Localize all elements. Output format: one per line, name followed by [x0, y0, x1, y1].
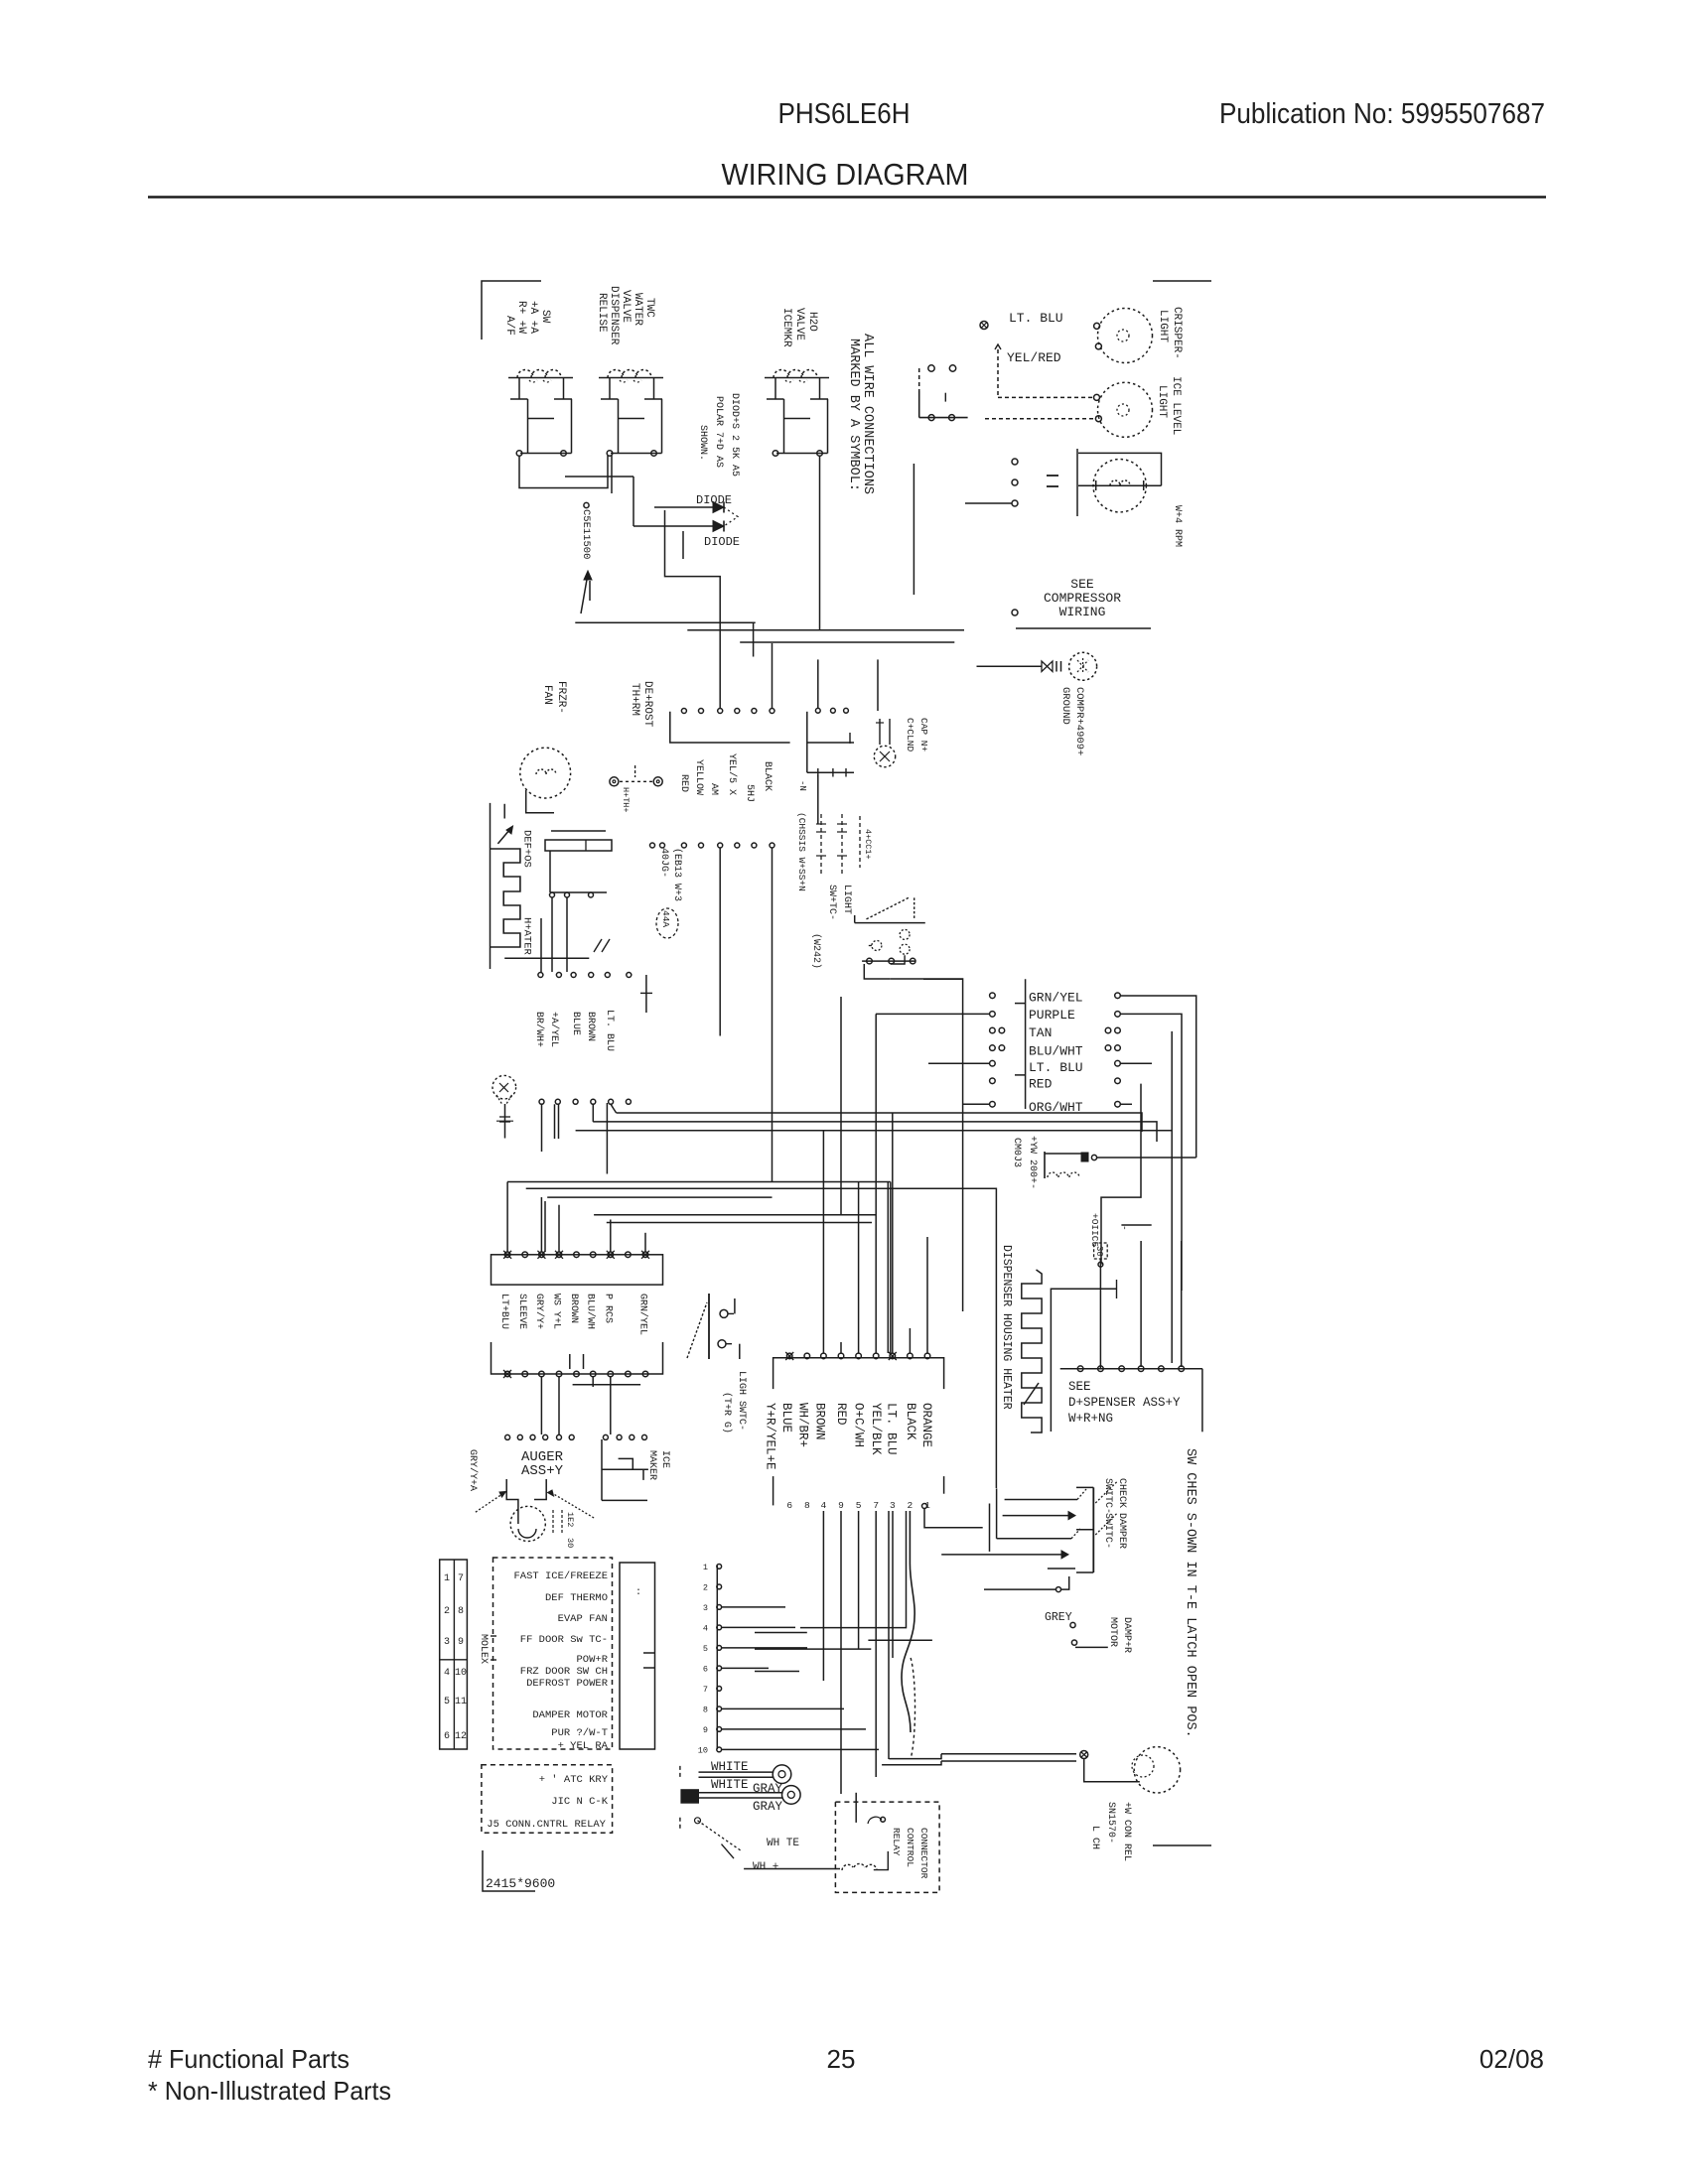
water valve V3 (water valve icemaker) [765, 377, 829, 379]
diode output dashed join [724, 507, 738, 526]
svg-text:FRZ DOOR SW CH: FRZ DOOR SW CH [520, 1666, 608, 1678]
connector pair C C [928, 365, 934, 371]
wire heater connector line [550, 891, 607, 893]
wire stub below diode [682, 531, 684, 559]
svg-text:LIGHT: LIGHT [1157, 310, 1169, 342]
svg-text:LIGHT: LIGHT [841, 885, 852, 914]
svg-text:(T+R G): (T+R G) [721, 1392, 733, 1433]
wire dashed to light pin2 [985, 418, 1094, 420]
legend symbol col1 [820, 814, 822, 874]
wire long vertical right [1171, 1031, 1173, 1363]
diode D2 lead [633, 525, 713, 527]
connector block lower pins [504, 1371, 510, 1377]
svg-text:CAP N+: CAP N+ [918, 718, 929, 752]
svg-text:(EB13 W+3: (EB13 W+3 [671, 848, 683, 901]
capacitor symbol [1047, 475, 1058, 477]
svg-text:COMPRESSOR: COMPRESSOR [1044, 591, 1121, 606]
ground ring terminal [1069, 652, 1097, 680]
wire channel v1 [822, 1511, 824, 1681]
svg-text:30: 30 [1094, 1246, 1104, 1257]
terminal white pair [699, 1771, 774, 1773]
water valve V2 (TWC water valve dispenser) [599, 377, 663, 379]
lamp crisper light [1098, 309, 1153, 363]
svg-text:W+R+NG: W+R+NG [1068, 1412, 1113, 1426]
svg-text:25: 25 [827, 2044, 856, 2074]
lamp ice level light [1098, 382, 1153, 437]
node CSE11500 terminal [584, 502, 589, 507]
wire top feed circle [922, 1504, 927, 1509]
svg-text:SLEEVE: SLEEVE [516, 1294, 527, 1329]
wire org/wht right stub [1120, 1103, 1132, 1105]
svg-text:3: 3 [444, 1637, 450, 1648]
diode D2 [713, 521, 724, 532]
wire stub [503, 804, 505, 819]
wire bus D3 [576, 1130, 1172, 1132]
svg-text:WH/BR+: WH/BR+ [796, 1403, 810, 1447]
wire purple row feed [876, 1013, 990, 1015]
legend symbol col2 [841, 814, 843, 874]
svg-text:LT. BLU: LT. BLU [885, 1403, 899, 1455]
svg-text:5HJ: 5HJ [744, 784, 755, 802]
heater defrost element [491, 849, 520, 947]
svg-text:ASS+Y: ASS+Y [521, 1463, 564, 1479]
svg-text:11: 11 [455, 1697, 467, 1707]
wire diag dotted [698, 1821, 743, 1851]
wire pair to lamp [889, 1754, 941, 1759]
svg-text:4+CC1+: 4+CC1+ [863, 829, 873, 860]
lamp small teardrop [492, 1075, 516, 1099]
connector row EB13 upper [681, 709, 686, 714]
svg-text:MAKER: MAKER [646, 1450, 657, 1480]
switch door light lever [687, 1302, 707, 1358]
svg-text:RELISE: RELISE [596, 293, 608, 333]
relay coil [842, 1863, 877, 1870]
svg-text:+YW 200+-: +YW 200+- [1027, 1136, 1038, 1189]
svg-text:DISPENSER: DISPENSER [608, 286, 620, 345]
svg-text:2: 2 [444, 1606, 450, 1617]
wire to relay [744, 1868, 840, 1870]
wire feed c5 [909, 1328, 911, 1353]
svg-text:DIOD+S 2 5K A5: DIOD+S 2 5K A5 [729, 393, 740, 477]
wire heater term drops [551, 897, 553, 972]
svg-text:DEF+OS: DEF+OS [521, 830, 533, 868]
svg-text:Y+R/YEL+E: Y+R/YEL+E [764, 1403, 777, 1470]
svg-text:5: 5 [444, 1697, 450, 1707]
callout bubble 44A [656, 908, 678, 938]
switch door light contacts [720, 1309, 728, 1317]
compressor box [1076, 449, 1078, 516]
wire switch drop [864, 964, 890, 979]
svg-text:5: 5 [703, 1644, 708, 1654]
svg-text:LIGHT: LIGHT [1156, 385, 1168, 418]
svg-text:Publication No: 5995507687: Publication No: 5995507687 [1219, 98, 1545, 130]
svg-text:-: - [1119, 1225, 1130, 1231]
wire crossing under valves [565, 476, 633, 478]
wire bus E2 [526, 1188, 997, 1488]
svg-text:A/F: A/F [503, 316, 515, 336]
wire purple right [1120, 1014, 1182, 1291]
thermostat defrost [551, 830, 606, 832]
symbol splice bowtie [1042, 661, 1053, 672]
motor freezer fan [520, 748, 571, 798]
ice maker switch [601, 1439, 603, 1500]
wire bus B drop [753, 622, 755, 656]
ice dashed marks [552, 1510, 554, 1534]
water valve V1 (switched lts wtr valve) [508, 377, 573, 379]
svg-text:DE+ROST: DE+ROST [641, 681, 653, 728]
svg-text:FRZR-: FRZR- [555, 681, 567, 714]
damper motor terminals [1070, 1622, 1075, 1627]
svg-text:1E2: 1E2 [565, 1512, 575, 1527]
wire channel v6 [800, 1511, 907, 1628]
svg-text:C+CLND: C+CLND [905, 718, 915, 752]
svg-text:BROWN: BROWN [568, 1294, 579, 1323]
lamp cap keyhole [874, 746, 895, 766]
switch light common row [862, 960, 915, 962]
svg-text:4: 4 [444, 1668, 450, 1679]
wire red right drop [1101, 1084, 1141, 1265]
wire bus B [687, 629, 964, 631]
connector columns wire colors [990, 993, 996, 999]
svg-text:D+SPENSER ASS+Y: D+SPENSER ASS+Y [1068, 1396, 1181, 1410]
svg-text:GRN/YEL: GRN/YEL [637, 1294, 649, 1335]
wire stub b [755, 1632, 807, 1634]
svg-text:WS Y+L: WS Y+L [551, 1294, 562, 1329]
control board solid box [620, 1563, 655, 1749]
relay dashed box [835, 1802, 939, 1892]
wire bus E4 [594, 1214, 876, 1216]
diagram corner mark top-left [482, 281, 541, 340]
wire lamp feed pair [941, 1753, 1076, 1755]
wire bus C [740, 641, 954, 643]
svg-text:1: 1 [703, 1563, 708, 1572]
wire bus A [575, 621, 755, 623]
connector body line [1025, 979, 1027, 1109]
svg-text:SWITC-: SWITC- [1102, 1478, 1113, 1514]
svg-text:EVAP FAN: EVAP FAN [558, 1613, 608, 1625]
svg-text:BROWN: BROWN [585, 1012, 596, 1041]
wire horizontal [504, 957, 589, 959]
svg-text:SW+TC-: SW+TC- [826, 885, 837, 920]
svg-text:H+ATER: H+ATER [521, 917, 533, 956]
svg-text:+A +A: +A +A [527, 301, 539, 334]
svg-text:2: 2 [703, 1582, 708, 1592]
svg-text:POW+R: POW+R [576, 1654, 608, 1666]
svg-text:4: 4 [703, 1623, 708, 1633]
wires into block pins [506, 1182, 508, 1253]
svg-text:VALVE: VALVE [620, 290, 632, 323]
svg-text:2415*9600: 2415*9600 [486, 1876, 555, 1891]
dashed tick2 [679, 1818, 681, 1832]
connector strip line [716, 1566, 718, 1749]
svg-text:02/08: 02/08 [1479, 2044, 1544, 2074]
wire drops to dispenser connector [1140, 1241, 1142, 1367]
svg-text:CONNECTOR: CONNECTOR [918, 1828, 929, 1879]
svg-text:GRY/Y+A: GRY/Y+A [467, 1449, 479, 1491]
svg-text:WH +: WH + [753, 1861, 778, 1873]
svg-text:DEF THERMO: DEF THERMO [545, 1592, 608, 1604]
svg-text:FF DOOR Sw TC-: FF DOOR Sw TC- [520, 1634, 608, 1646]
svg-text:P RCS: P RCS [602, 1294, 613, 1323]
svg-text:MOTOR: MOTOR [1107, 1617, 1118, 1647]
svg-text:FAN: FAN [541, 685, 553, 705]
svg-text:7: 7 [458, 1573, 464, 1584]
svg-text:WIRING: WIRING [1059, 605, 1106, 619]
svg-text:8: 8 [703, 1705, 708, 1714]
brace bundle [911, 1658, 914, 1759]
connector block pins [504, 1252, 510, 1258]
wires from strip [722, 1606, 785, 1608]
svg-text:BROWN: BROWN [812, 1403, 826, 1440]
svg-text:1: 1 [444, 1573, 450, 1584]
wire drop from row pin6 [772, 848, 774, 1182]
svg-text:TAN: TAN [1029, 1025, 1052, 1040]
wire feed check switch L1 [1005, 1499, 1077, 1501]
wire feed c1 [840, 997, 842, 1215]
switch leader dotted 2 [1095, 1513, 1117, 1535]
svg-text:SW CHES S-OWN IN T-E LATCH OPE: SW CHES S-OWN IN T-E LATCH OPEN POS. [1183, 1448, 1197, 1738]
connector block lower bracket [492, 1342, 663, 1374]
wire break marks [594, 939, 602, 952]
svg-text:RELAY: RELAY [891, 1828, 902, 1856]
svg-text:-N: -N [797, 780, 807, 791]
svg-text:ORANGE: ORANGE [919, 1403, 933, 1447]
wire switch left verticals [989, 1504, 991, 1552]
wire V1 to V2 jog [519, 456, 608, 488]
svg-text:RED: RED [834, 1403, 848, 1426]
wire drop 884 [877, 659, 879, 711]
wire E1 pair down [887, 1182, 889, 1354]
svg-text:DEFROST POWER: DEFROST POWER [526, 1678, 609, 1690]
control board dashed box [493, 1558, 613, 1749]
svg-text:LT. BLU: LT. BLU [1009, 311, 1063, 326]
svg-text:BLU/WHT: BLU/WHT [1029, 1043, 1083, 1058]
svg-text:PURPLE: PURPLE [1029, 1008, 1075, 1023]
terminal circle [1012, 610, 1018, 615]
relay top lead [855, 1793, 857, 1823]
terminal gray pair [681, 1790, 699, 1804]
wire bus E3 [547, 1196, 772, 1198]
switch door light bar [708, 1294, 710, 1359]
wire feed c2 [858, 1182, 860, 1354]
svg-text:DIODE: DIODE [704, 535, 740, 549]
wire diode bus down [665, 510, 721, 708]
wire stub d [868, 1639, 932, 1641]
svg-text:6: 6 [444, 1731, 450, 1742]
svg-text:SW: SW [539, 310, 551, 324]
svg-text:7: 7 [873, 1500, 879, 1511]
node splice circle [1080, 1751, 1088, 1759]
svg-text:MARKED BY A SYMBOL:: MARKED BY A SYMBOL: [846, 339, 861, 491]
wire feed pin9 [926, 1237, 928, 1353]
wire bus E5 [607, 1222, 872, 1224]
diagram corner mark top-right [1153, 280, 1211, 282]
wire drop from row pin3 [719, 848, 721, 1036]
overload connector [815, 708, 820, 713]
wire bus E1 [507, 1181, 891, 1183]
svg-text:PHS6LE6H: PHS6LE6H [778, 98, 911, 130]
svg-text:5: 5 [856, 1500, 862, 1511]
wire grnyel right to buzzer [1120, 996, 1196, 1158]
svg-text:FAST ICE/FREEZE: FAST ICE/FREEZE [513, 1570, 608, 1582]
svg-text:2: 2 [908, 1500, 914, 1511]
svg-text:VALVE: VALVE [793, 308, 805, 341]
auger arrows [476, 1495, 501, 1513]
svg-text:9: 9 [838, 1500, 844, 1511]
svg-text:DAMPER: DAMPER [1116, 1513, 1127, 1549]
svg-text:YELLOW: YELLOW [693, 759, 704, 795]
svg-text:RED: RED [678, 774, 689, 792]
wire channel v5 [888, 1511, 890, 1759]
svg-text:GREY: GREY [1045, 1611, 1072, 1624]
svg-text:JIC N C-K: JIC N C-K [551, 1796, 608, 1808]
svg-text:BLACK: BLACK [904, 1403, 917, 1440]
wire drop 823a [817, 659, 819, 708]
wire bus D1 [617, 1113, 1142, 1132]
svg-text:SHOWN.: SHOWN. [697, 425, 708, 461]
svg-text:BLUE: BLUE [779, 1403, 793, 1433]
node crisper light pin1 [1094, 394, 1100, 400]
svg-text:PUR ?/W-T: PUR ?/W-T [551, 1727, 608, 1739]
defrost arrow [497, 829, 510, 844]
svg-text:* Non-Illustrated Parts: * Non-Illustrated Parts [148, 2076, 391, 2106]
svg-text:BLUE: BLUE [570, 1012, 581, 1035]
switch slash in dispenser heater [1024, 1383, 1039, 1405]
connector row auger [505, 1434, 510, 1439]
connector strip pins [717, 1565, 722, 1570]
svg-text:40JG-: 40JG- [658, 848, 669, 878]
wire buzzer lead [1097, 1157, 1196, 1159]
switch check bracket [1092, 1487, 1094, 1572]
svg-text:R+ +W: R+ +W [515, 301, 527, 334]
node heater terminals [550, 892, 555, 897]
svg-text:GRN/YEL: GRN/YEL [1029, 991, 1083, 1006]
ticks between blocks [569, 1354, 571, 1369]
auger bracket [506, 1479, 518, 1524]
wire channel v2 [840, 1511, 842, 1794]
wire V3 right terminal drop [819, 456, 821, 630]
wire feed L2 arrow [1003, 1515, 1068, 1517]
svg-text:CONTROL: CONTROL [905, 1828, 915, 1867]
svg-text:+ ' ATC KRY: + ' ATC KRY [539, 1774, 609, 1786]
table molex frame [440, 1560, 468, 1749]
svg-text:SEE: SEE [1068, 1380, 1091, 1394]
svg-text:TWC: TWC [643, 298, 655, 318]
svg-text:WH TE: WH TE [767, 1838, 799, 1849]
svg-text:DIODE: DIODE [696, 493, 732, 507]
wire heater right [1051, 1289, 1116, 1432]
connector control pins [786, 1353, 792, 1359]
svg-text:BLU/WH: BLU/WH [585, 1294, 597, 1329]
svg-text:30: 30 [565, 1538, 575, 1548]
switch leader dotted 1 [1095, 1481, 1117, 1503]
wire feed5 hook [984, 1588, 1055, 1590]
svg-text:+A/YEL: +A/YEL [548, 1012, 560, 1047]
thermostat termination [610, 777, 619, 786]
svg-text:DAMPER MOTOR: DAMPER MOTOR [532, 1709, 608, 1721]
svg-text:SWITC-: SWITC- [1102, 1513, 1113, 1549]
wire drops from mid row [541, 1104, 543, 1152]
svg-text:ALL WIRE CONNECTIONS: ALL WIRE CONNECTIONS [860, 334, 875, 494]
svg-text:ICE LEVEL: ICE LEVEL [1170, 376, 1182, 435]
svg-text:ICEMKR: ICEMKR [780, 308, 792, 347]
wire channel v3 [858, 1511, 860, 1649]
connector control bracket [774, 1358, 944, 1389]
svg-text:12: 12 [455, 1731, 467, 1742]
buzzer coil [1044, 1152, 1046, 1178]
svg-text:8: 8 [804, 1500, 810, 1511]
svg-text:44A: 44A [660, 910, 671, 927]
wire to compressor ground [977, 665, 1043, 667]
freezer fan bracket [526, 790, 554, 813]
svg-text::: : [635, 1587, 641, 1598]
svg-text:6: 6 [703, 1664, 708, 1674]
svg-text:3: 3 [890, 1500, 896, 1511]
diode D1 lead [654, 506, 713, 508]
svg-text:10: 10 [698, 1745, 708, 1755]
svg-text:DAMP+R: DAMP+R [1121, 1617, 1132, 1653]
wire ltblu right [1120, 1062, 1152, 1064]
wire feed L5 [1048, 1568, 1075, 1570]
svg-text:LT. BLU: LT. BLU [1029, 1060, 1083, 1075]
svg-text:BLACK: BLACK [762, 761, 773, 791]
wires below lower block [540, 1377, 542, 1434]
switch light W242 base [855, 922, 925, 924]
svg-text:YEL/BLK: YEL/BLK [869, 1403, 883, 1455]
svg-text:+OIIC5: +OIIC5 [1089, 1213, 1100, 1248]
wire switch corner to right [890, 979, 962, 1311]
wire ltblu row feed [928, 1062, 990, 1064]
svg-text:+W CON REL: +W CON REL [1121, 1802, 1132, 1861]
svg-text:CHECK: CHECK [1116, 1478, 1127, 1508]
svg-text:3: 3 [703, 1603, 708, 1613]
svg-text:W+4 RPM: W+4 RPM [1172, 505, 1183, 547]
svg-text:C5E11500: C5E11500 [580, 509, 592, 559]
motor auger [510, 1506, 545, 1541]
wire left rail [490, 803, 492, 969]
lamp night light [1134, 1747, 1180, 1793]
svg-text:DISPENSER HOUSING HEATER: DISPENSER HOUSING HEATER [1000, 1245, 1013, 1410]
svg-text:YEL/RED: YEL/RED [1007, 350, 1061, 365]
wire terminal row circles [1012, 459, 1018, 465]
connector row EB13 bracket [670, 712, 790, 743]
svg-text:7: 7 [703, 1685, 708, 1695]
svg-text:WIRING DIAGRAM: WIRING DIAGRAM [722, 157, 969, 192]
symbol terminal bars [1055, 661, 1057, 672]
wire channel v4 [875, 1511, 877, 1777]
wire feed L4 arrow [941, 1554, 1061, 1556]
switch light contacts [872, 941, 882, 951]
connector dispenser row [1060, 1368, 1202, 1370]
wire stub c [755, 1671, 799, 1673]
wire drop 777 [772, 643, 774, 708]
svg-text:LT+BLU: LT+BLU [498, 1294, 509, 1329]
connector row mid [539, 1099, 544, 1104]
svg-text:BR/WH+: BR/WH+ [533, 1012, 545, 1047]
wire channel v7 [902, 1511, 914, 1732]
wire lamp lead [1084, 1759, 1140, 1782]
atc dashed box [482, 1765, 613, 1833]
svg-text:LT. BLU: LT. BLU [604, 1010, 615, 1051]
svg-text:WATER: WATER [632, 293, 643, 326]
wire stub a [755, 1648, 871, 1650]
svg-text:10: 10 [455, 1668, 467, 1679]
heater dispenser element [1022, 1270, 1042, 1433]
svg-text:RED: RED [1029, 1077, 1053, 1092]
svg-text:GRAY: GRAY [753, 1800, 783, 1814]
svg-text:POLAR 7+D AS: POLAR 7+D AS [713, 396, 724, 468]
switch light lever dashed [867, 897, 911, 919]
